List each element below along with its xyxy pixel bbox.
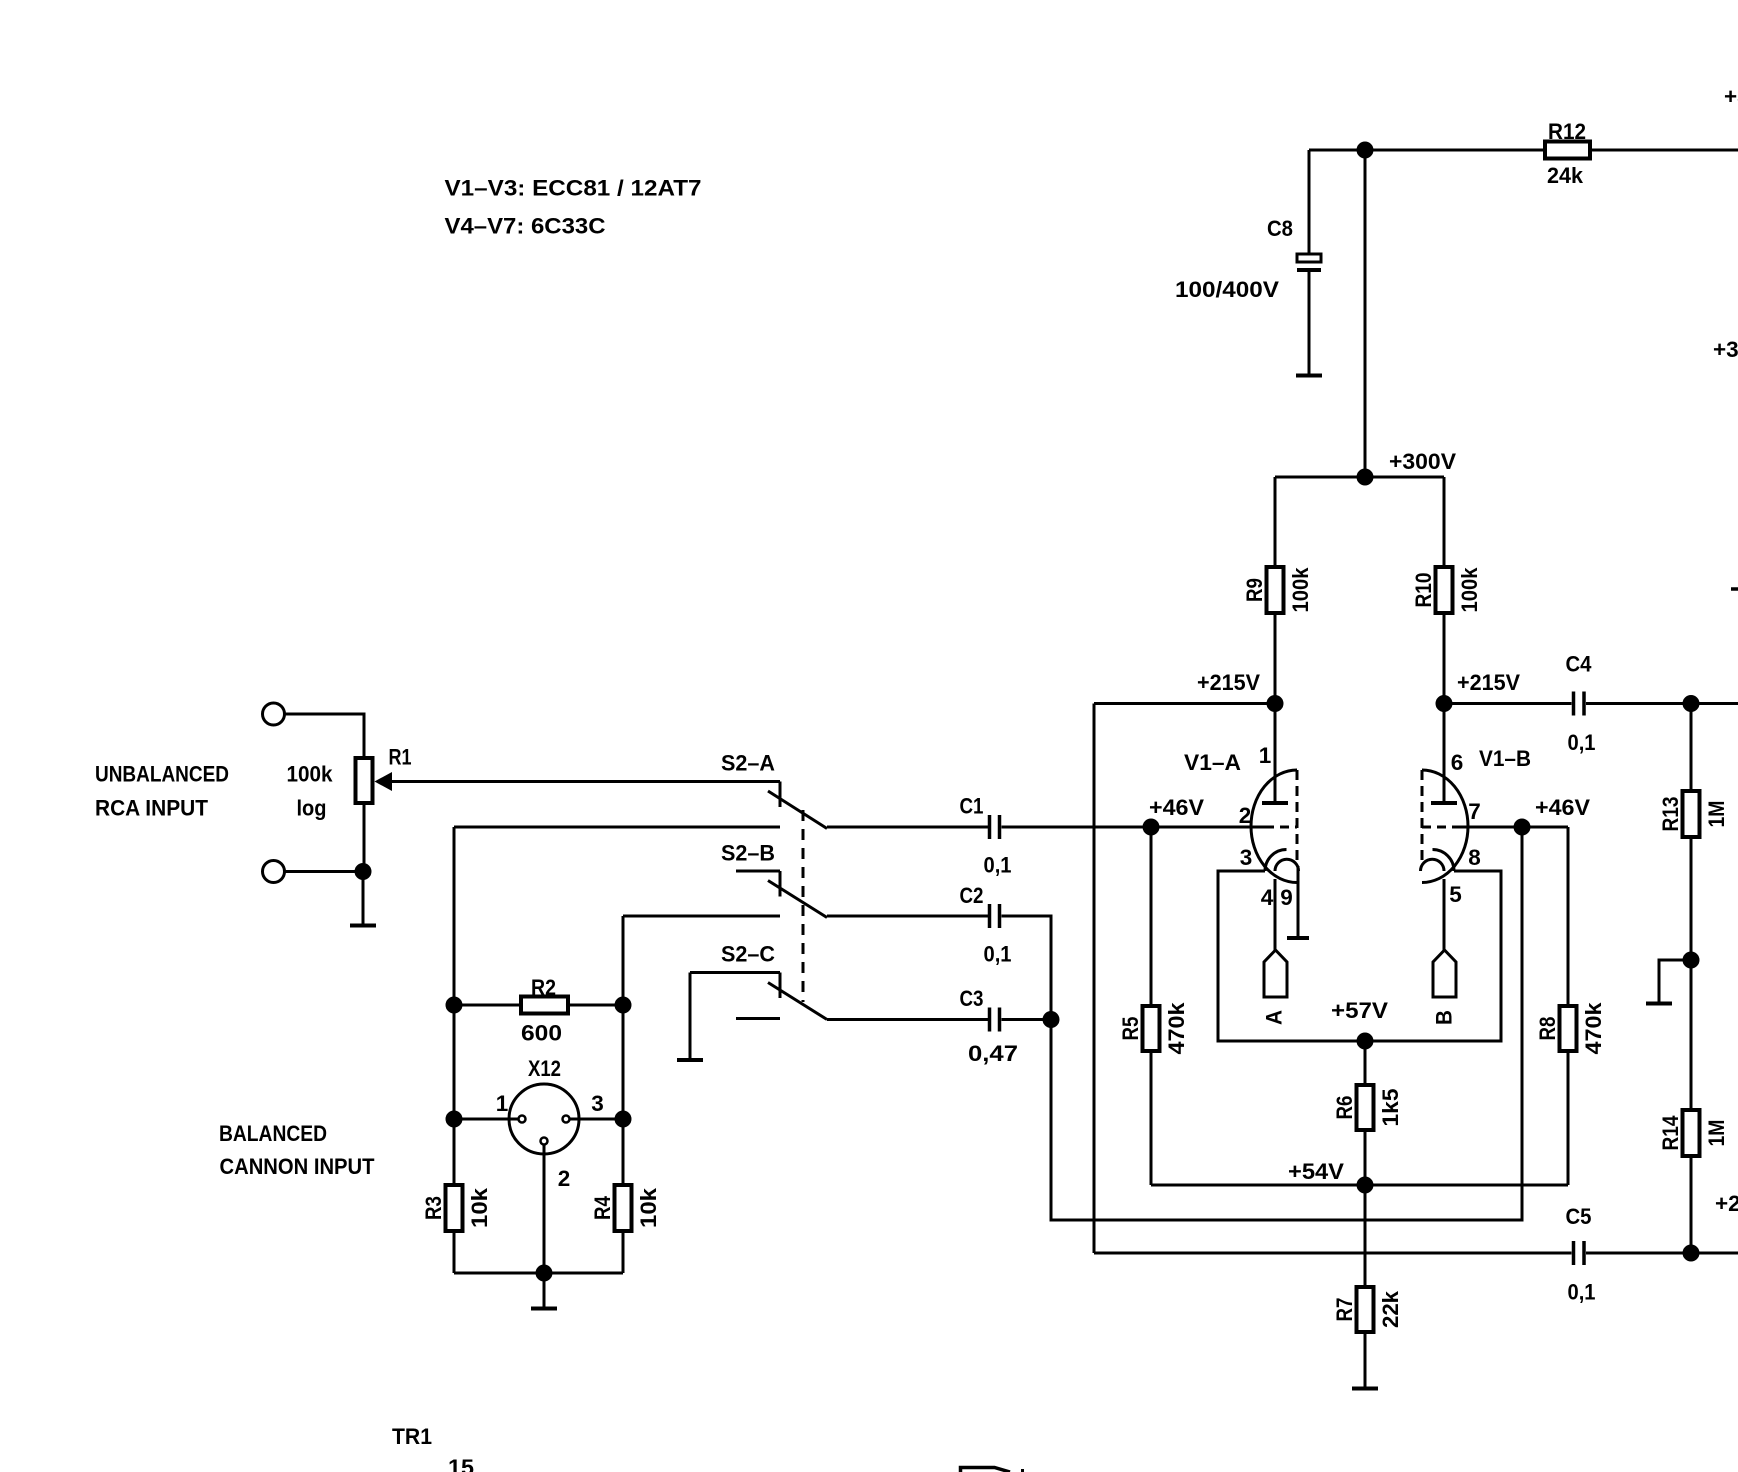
V1-B grid wire from +46V node xyxy=(1454,826,1522,829)
svg-text:1M: 1M xyxy=(1704,801,1729,828)
wire: wiper to S2-A xyxy=(392,780,780,783)
svg-text:C4: C4 xyxy=(1566,652,1592,677)
wire: R2 right down to pin3 xyxy=(622,1005,625,1119)
wire: S2-A output to C1 xyxy=(827,826,988,829)
svg-text:10k: 10k xyxy=(636,1187,661,1228)
svg-text:100k: 100k xyxy=(1457,567,1482,612)
svg-text:+3: +3 xyxy=(1724,84,1738,109)
node: pin1 / R3 xyxy=(446,1111,462,1127)
svg-text:0,47: 0,47 xyxy=(968,1041,1018,1066)
V1-B envelope dashed side xyxy=(1421,770,1424,863)
node: C5 / R14 junction xyxy=(1683,1245,1699,1261)
R1 wiper arrow xyxy=(375,772,393,791)
node +46V B xyxy=(1514,819,1530,835)
node +57V xyxy=(1357,1033,1373,1049)
switch linkage dashed xyxy=(802,810,805,1002)
svg-text:UNBALANCED: UNBALANCED xyxy=(95,762,229,787)
resistor R2 600 xyxy=(454,1004,521,1007)
V1-A grid dashes xyxy=(1265,826,1297,829)
svg-text:1k5: 1k5 xyxy=(1378,1089,1403,1127)
V1-B anode plate xyxy=(1431,801,1457,805)
svg-text:10k: 10k xyxy=(467,1187,492,1228)
ground: R7 xyxy=(1352,1387,1378,1391)
wire: bottom tie xyxy=(454,1272,623,1275)
V1-A cathode arc xyxy=(1265,850,1287,872)
node: pin2 ground junction xyxy=(536,1265,552,1281)
node: R13/R14 midpoint xyxy=(1683,952,1699,968)
svg-text:V1–A: V1–A xyxy=(1184,750,1241,775)
V1-B heater pin 5 lead xyxy=(1443,879,1446,950)
heater terminal A pentagon xyxy=(1264,950,1287,997)
op V1-A anode lead from +215V xyxy=(1274,704,1277,804)
svg-text:R5: R5 xyxy=(1118,1017,1143,1041)
wire: S2-A contact down to R2 left xyxy=(453,827,456,1005)
connector: RCA input jack top xyxy=(263,703,285,725)
wire: cathode loop xyxy=(1218,871,1501,1041)
svg-text:S2–C: S2–C xyxy=(721,942,775,967)
V1-A heater pin 4 lead xyxy=(1274,879,1277,950)
svg-text:R3: R3 xyxy=(421,1196,446,1220)
svg-text:C5: C5 xyxy=(1566,1204,1592,1229)
svg-text:+300V: +300V xyxy=(1389,449,1456,474)
wire: rail down to +300V node xyxy=(1364,150,1367,477)
svg-text:RCA INPUT: RCA INPUT xyxy=(95,796,208,821)
svg-text:TR1: TR1 xyxy=(392,1424,432,1449)
wire: long drop to C5 row xyxy=(1093,704,1096,1254)
svg-text:100/400V: 100/400V xyxy=(1175,277,1279,302)
tiny plus fragment right edge xyxy=(1731,587,1738,591)
V1-A envelope dashed side xyxy=(1296,770,1299,863)
wire: C5 to node xyxy=(1586,1252,1738,1255)
ground: C8 negative terminal xyxy=(1296,374,1322,378)
V1-B anode lead xyxy=(1443,704,1446,804)
svg-text:470k: 470k xyxy=(1581,1002,1606,1054)
svg-text:5: 5 xyxy=(1449,882,1462,907)
V1-B grid dashes xyxy=(1422,826,1454,829)
svg-text:600: 600 xyxy=(521,1021,562,1046)
svg-text:C8: C8 xyxy=(1267,216,1293,241)
svg-text:X12: X12 xyxy=(528,1056,561,1081)
svg-text:C2: C2 xyxy=(960,883,984,908)
V1-B cathode arc xyxy=(1433,850,1455,872)
svg-text:2: 2 xyxy=(1239,803,1252,828)
potentiometer R1 100k log xyxy=(356,758,373,803)
svg-text:C3: C3 xyxy=(960,986,984,1011)
ground: S2-C contact xyxy=(689,973,692,1061)
svg-text:S2–A: S2–A xyxy=(721,751,775,776)
node +54V xyxy=(1357,1177,1373,1193)
node +215V left xyxy=(1267,696,1283,712)
svg-text:+46V: +46V xyxy=(1149,795,1204,820)
svg-text:+215V: +215V xyxy=(1457,670,1520,695)
resistor R12 xyxy=(1545,142,1590,159)
node: pin3 / R4 xyxy=(615,1111,631,1127)
svg-text:V1–V3: ECC81 / 12AT7: V1–V3: ECC81 / 12AT7 xyxy=(445,176,702,201)
ground: RCA input xyxy=(362,872,365,926)
wire: C2 out, down and across to grid B riser xyxy=(1002,827,1523,1220)
svg-text:+57V: +57V xyxy=(1331,998,1388,1023)
TR1 winding terminal fragment (cut at bottom) xyxy=(961,1468,1011,1472)
svg-text:BALANCED: BALANCED xyxy=(219,1121,327,1146)
svg-text:R1: R1 xyxy=(389,745,412,770)
svg-text:100k: 100k xyxy=(1288,567,1313,612)
svg-text:R14: R14 xyxy=(1658,1115,1683,1150)
ground: XLR pin2 xyxy=(543,1273,546,1308)
V1-B envelope arc xyxy=(1422,770,1468,883)
svg-text:1: 1 xyxy=(1259,743,1272,768)
wire xyxy=(285,870,364,873)
svg-text:R6: R6 xyxy=(1332,1096,1357,1120)
wire: +300V rail xyxy=(1275,476,1444,479)
connector: RCA input jack bottom xyxy=(263,861,285,883)
node +300V xyxy=(1357,469,1373,485)
wire: pin1 xyxy=(454,1118,518,1121)
svg-text:4: 4 xyxy=(1261,885,1274,910)
resistor R10 100k xyxy=(1443,477,1446,567)
V1-A anode plate xyxy=(1262,801,1288,805)
svg-text:1: 1 xyxy=(496,1091,509,1116)
V1-A envelope arc xyxy=(1251,770,1297,883)
svg-text:+46V: +46V xyxy=(1535,795,1590,820)
svg-text:8: 8 xyxy=(1468,845,1481,870)
svg-text:CANNON INPUT: CANNON INPUT xyxy=(220,1154,375,1179)
node: RCA ground junction xyxy=(355,864,371,880)
svg-text:R12: R12 xyxy=(1548,119,1586,144)
wire: pin2 down xyxy=(543,1145,546,1274)
svg-text:R10: R10 xyxy=(1411,573,1436,608)
+54V rail xyxy=(1151,1184,1568,1187)
svg-text:3: 3 xyxy=(1240,845,1253,870)
svg-text:log: log xyxy=(297,796,327,821)
svg-text:7: 7 xyxy=(1468,799,1481,824)
svg-text:C1: C1 xyxy=(960,794,984,819)
svg-text:0,1: 0,1 xyxy=(984,853,1012,878)
svg-text:100k: 100k xyxy=(287,762,333,787)
wire xyxy=(285,714,365,758)
svg-text:R8: R8 xyxy=(1535,1017,1560,1041)
wire: +46V B to R8 xyxy=(1522,826,1568,829)
svg-text:0,1: 0,1 xyxy=(984,942,1012,967)
node: top rail junction xyxy=(1357,142,1373,158)
svg-text:A: A xyxy=(1262,1010,1287,1025)
ground: grid leak midpoint xyxy=(1659,960,1691,1003)
svg-text:470k: 470k xyxy=(1164,1002,1189,1054)
capacitor C8 (electrolytic) xyxy=(1308,150,1311,254)
wire: C3 out xyxy=(1002,1018,1052,1021)
svg-text:V1–B: V1–B xyxy=(1479,746,1531,771)
V1-A pin 9 internal shield lead xyxy=(1297,866,1300,938)
node: C3/C2 junction xyxy=(1043,1012,1059,1028)
svg-text:0,1: 0,1 xyxy=(1568,1280,1596,1305)
svg-text:R2: R2 xyxy=(531,975,556,1000)
resistor R3 10k xyxy=(453,1119,456,1185)
svg-text:B: B xyxy=(1432,1010,1457,1025)
resistor R13 1M xyxy=(1690,704,1693,792)
resistor R7 22k xyxy=(1364,1185,1367,1287)
wire: C1 to +46V node A xyxy=(1002,826,1152,829)
R1 bottom lead xyxy=(363,803,366,872)
resistor R4 10k xyxy=(622,1119,625,1185)
heater terminal B pentagon xyxy=(1433,950,1456,997)
svg-text:+215V: +215V xyxy=(1197,670,1260,695)
V1-A heater dome xyxy=(1275,859,1299,871)
node: C4 / R13 junction xyxy=(1683,696,1699,712)
svg-text:+3: +3 xyxy=(1713,337,1738,362)
wire: +215V left to feedback drop xyxy=(1094,702,1275,705)
svg-text:15: 15 xyxy=(448,1455,474,1472)
wire: S2-B contact down to XLR pin3 node xyxy=(622,916,625,1005)
svg-text:R9: R9 xyxy=(1242,578,1267,602)
resistor R8 470k xyxy=(1567,827,1570,1006)
svg-text:R13: R13 xyxy=(1658,797,1683,832)
svg-text:V4–V7: 6C33C: V4–V7: 6C33C xyxy=(445,214,606,239)
node +215V right xyxy=(1436,696,1452,712)
svg-text:1M: 1M xyxy=(1704,1120,1729,1147)
wire: R2 left down to pin1 xyxy=(453,1005,456,1119)
wire: C4 to output node xyxy=(1586,702,1738,705)
V1-B heater dome xyxy=(1421,859,1445,871)
svg-text:6: 6 xyxy=(1451,750,1464,775)
svg-text:R4: R4 xyxy=(590,1196,615,1220)
svg-text:2: 2 xyxy=(558,1166,571,1191)
wire: +215V right to C4 xyxy=(1444,702,1572,705)
node +46V A xyxy=(1143,819,1159,835)
resistor R6 1k5 xyxy=(1364,1041,1367,1085)
svg-text:9: 9 xyxy=(1280,885,1293,910)
svg-text:+54V: +54V xyxy=(1288,1159,1344,1184)
resistor R14 1M xyxy=(1683,1110,1700,1156)
resistor R9 100k xyxy=(1274,477,1277,567)
svg-text:+2: +2 xyxy=(1715,1191,1738,1216)
svg-text:0,1: 0,1 xyxy=(1568,730,1596,755)
wire: R12 to right edge xyxy=(1590,149,1738,152)
wire: pin3 xyxy=(570,1118,623,1121)
V1-A grid: wire from +46V node xyxy=(1151,826,1265,829)
svg-text:S2–B: S2–B xyxy=(721,841,775,866)
node: R2 right xyxy=(615,997,631,1013)
resistor R5 470k xyxy=(1150,827,1153,1006)
svg-text:R7: R7 xyxy=(1332,1298,1357,1322)
svg-text:3: 3 xyxy=(591,1091,604,1116)
svg-text:22k: 22k xyxy=(1378,1291,1403,1328)
node: R2 left xyxy=(446,997,462,1013)
wire: top B+ rail to R12 xyxy=(1309,149,1545,152)
svg-text:24k: 24k xyxy=(1547,163,1583,188)
